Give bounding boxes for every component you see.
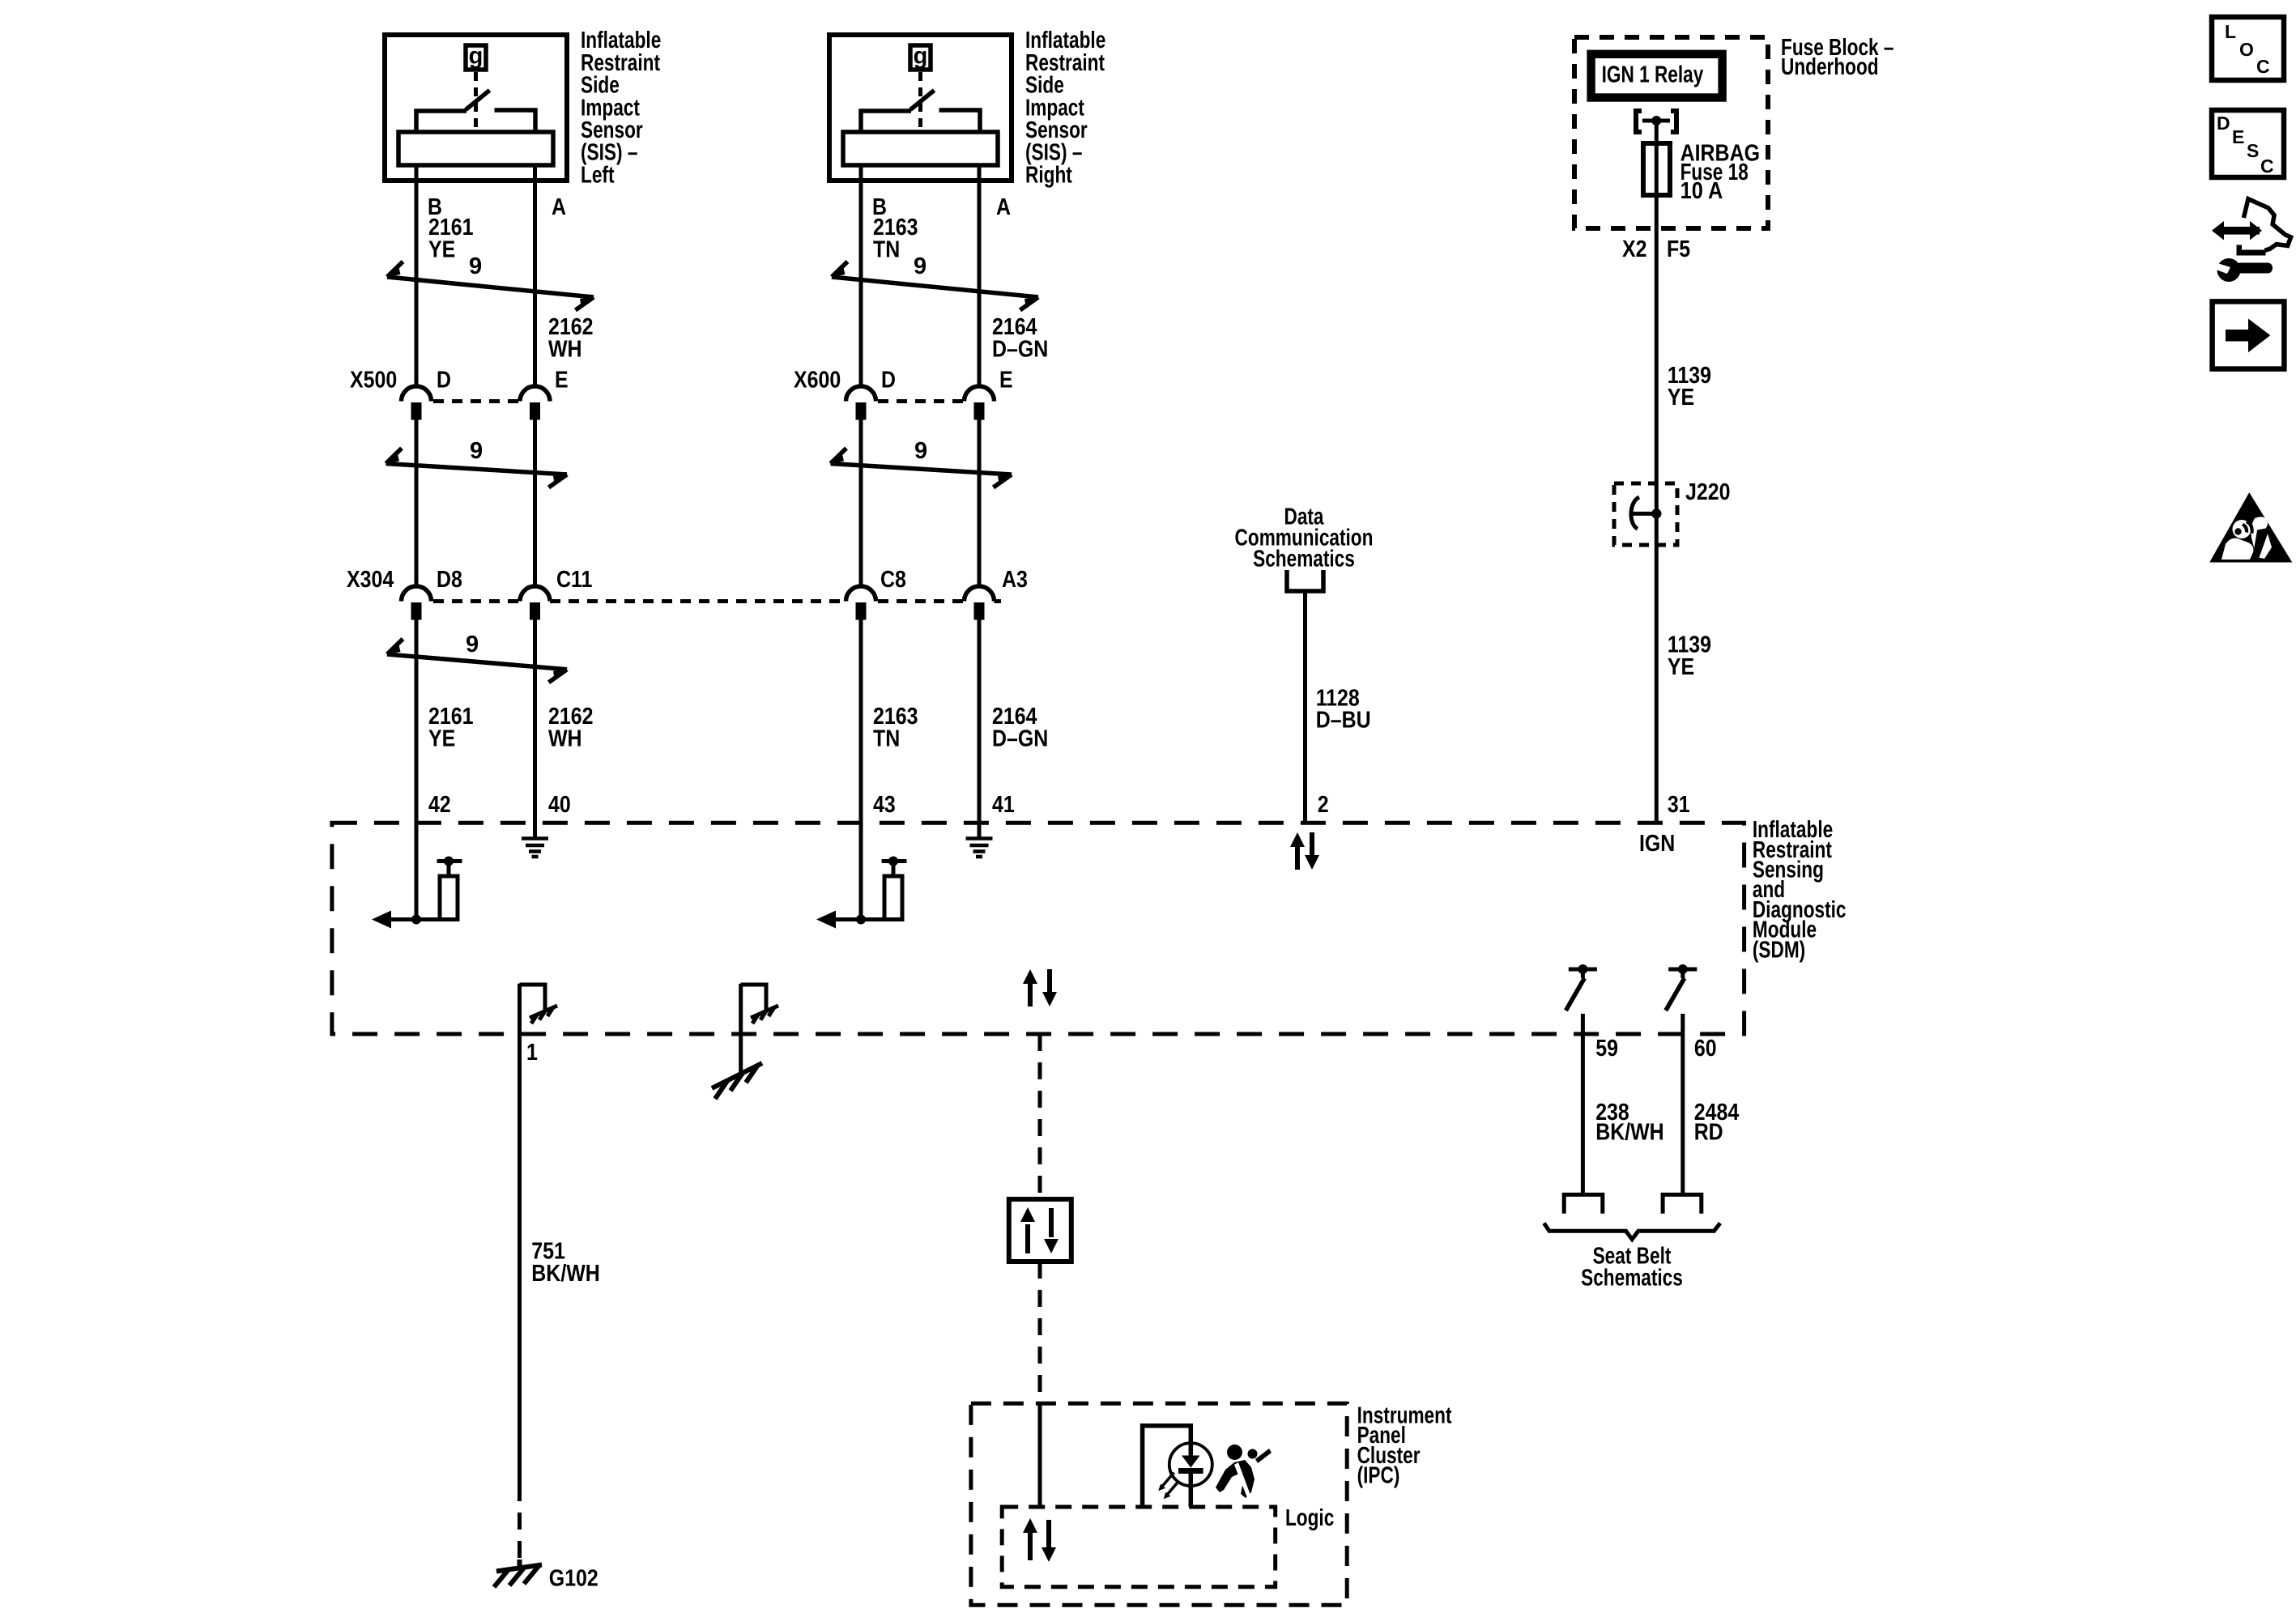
relay clip right: [1671, 111, 1676, 132]
svg-text:43: 43: [873, 792, 896, 818]
wire 751 dashed segment: [518, 1484, 522, 1560]
LED light arrow 1: [1158, 1473, 1174, 1491]
svg-text:9: 9: [466, 632, 479, 657]
wire A stub inside box (right): [978, 165, 982, 183]
svg-text:L: L: [2225, 21, 2236, 42]
svg-text:S: S: [2247, 140, 2259, 161]
Logic dashed box: [1002, 1507, 1276, 1587]
serial data arrows (above IPC drop): [1023, 969, 1057, 1006]
wire 2161 segment 2: [415, 420, 419, 586]
internal ground 2: wire: [739, 984, 743, 1074]
ground symbol under pin 41: [966, 839, 993, 857]
relay clip left: [1636, 111, 1642, 132]
wire 2164 segment 2: [978, 420, 982, 586]
LED cathode lead to logic box: [1189, 1474, 1194, 1507]
wire 2162 segment 1: [533, 183, 537, 385]
svg-text:9: 9: [914, 253, 926, 279]
svg-text:X2: X2: [1622, 236, 1647, 262]
svg-text:D8: D8: [437, 567, 462, 593]
wire 2163 segment 3: [859, 620, 863, 920]
forward arrow: [2226, 319, 2270, 353]
wire pin 59 to terminal: [1581, 1034, 1585, 1193]
warning triangle pictogram: [2221, 517, 2272, 560]
seat belt switch 60: blade: [1666, 978, 1685, 1011]
svg-text:X500: X500: [350, 368, 397, 394]
svg-text:9: 9: [914, 438, 927, 464]
wire 2163 segment 2: [859, 420, 863, 586]
double arrow in hand: [2212, 221, 2262, 240]
sensor body rectangle (left sensor): [398, 132, 553, 165]
wire 1139 segment 2 (J220 to SDM): [1655, 545, 1659, 823]
svg-text:X600: X600: [794, 368, 841, 394]
seat belt schematics brace: [1544, 1223, 1721, 1240]
wire 2164 segment 1: [978, 183, 982, 385]
LED cathode bar: [1178, 1468, 1203, 1474]
LED diode triangle: [1182, 1456, 1200, 1468]
squib driver right: junction dot: [856, 915, 866, 925]
wire 2162 segment 2: [533, 420, 537, 586]
squib driver left: bottom lead: [381, 917, 449, 921]
splice J220 dashed box: [1614, 483, 1677, 545]
wrench icon: [2216, 258, 2273, 282]
squib driver right: resistor body: [884, 876, 902, 920]
wire pin 60 to terminal: [1680, 1034, 1685, 1193]
LED light arrow 2: [1164, 1482, 1178, 1500]
g box (left sensor): [466, 45, 486, 70]
switch right lead (left sensor): [495, 110, 536, 132]
svg-text:J220: J220: [1685, 479, 1731, 505]
serial data wire inside IPC: [1038, 1403, 1042, 1507]
svg-text:A: A: [552, 194, 566, 220]
serial data arrows (in box): [1020, 1207, 1059, 1253]
right SIS sensor box: [829, 35, 1012, 181]
seat belt switch 59: lower wire: [1581, 1014, 1585, 1034]
serial data arrows (in Logic box): [1023, 1518, 1056, 1562]
sensor body rectangle (right sensor): [843, 132, 998, 165]
svg-text:E: E: [2232, 126, 2244, 147]
switch blade (left sensor): [466, 91, 490, 110]
harness slash 1 (left pair): [387, 262, 594, 310]
svg-text:1: 1: [526, 1040, 538, 1066]
wire 2161 segment 1: [415, 183, 419, 385]
switch left lead (left sensor): [416, 111, 466, 132]
relay contact dot: [1651, 116, 1661, 126]
seat belt switch 59: stub: [1581, 969, 1585, 978]
wire through J220: [1655, 483, 1659, 545]
svg-text:E: E: [999, 368, 1013, 394]
IGN 1 Relay box: [1591, 54, 1723, 98]
warning triangle: [2209, 492, 2292, 562]
forward arrow icon box: [2213, 301, 2285, 368]
svg-text:9: 9: [469, 253, 482, 279]
svg-text:40: 40: [548, 792, 571, 818]
connector X600 dashed line: [878, 399, 965, 403]
svg-text:E: E: [555, 368, 569, 394]
DESC icon box: [2212, 110, 2284, 177]
squib driver left: tee stem: [447, 862, 451, 877]
svg-text:D: D: [881, 368, 896, 394]
terminal pin D (X600): [856, 402, 867, 420]
switch dashed line (right sensor): [918, 72, 922, 130]
switch left lead (right sensor): [861, 111, 911, 132]
chassis ground below SDM (second): [712, 1063, 762, 1099]
seat belt switch 59: blade: [1565, 978, 1584, 1011]
terminal symbol (wire 238): [1564, 1194, 1603, 1213]
seat belt switch 60: contact dot: [1678, 964, 1688, 974]
connector X500 dashed line: [433, 399, 520, 403]
squib driver right: tee stem: [892, 862, 896, 877]
connector arc D (X500): [402, 386, 432, 401]
g box (right sensor): [910, 45, 931, 70]
svg-text:D: D: [437, 368, 451, 394]
harness slash 2 (left pair): [386, 449, 568, 488]
wire inside fuse: [1655, 143, 1659, 195]
wire 2161 segment 3: [415, 620, 419, 920]
squib driver right: arrowhead: [816, 911, 836, 929]
seat belt switch 60: stub: [1680, 969, 1685, 978]
squib driver left: arrowhead: [372, 911, 391, 929]
wire 751 solid segment: [518, 1034, 522, 1484]
wire B stub inside box (right): [859, 165, 863, 183]
svg-text:41: 41: [992, 792, 1015, 818]
wire A stub inside box (left): [533, 165, 537, 183]
LOC icon box: [2212, 17, 2284, 80]
squib driver right: bottom lead: [825, 917, 893, 921]
svg-text:IGN 1 Relay: IGN 1 Relay: [1602, 62, 1704, 88]
splice lead (J220): [1633, 512, 1656, 516]
AIRBAG fuse 18 body: [1643, 143, 1670, 195]
internal ground 2: hook: [741, 985, 766, 1011]
svg-text:g: g: [469, 44, 483, 70]
terminal pin C8 (X304): [856, 602, 867, 620]
connector arc E (X600): [965, 386, 995, 401]
squib driver left: top tee: [437, 859, 462, 863]
connector arc C8 (X304): [846, 586, 876, 602]
LED anode lead inside circle: [1189, 1443, 1194, 1456]
wire 2164 segment 3: [978, 620, 982, 839]
internal ground 1: chassis glyph: [530, 1006, 557, 1023]
svg-text:A: A: [996, 194, 1011, 220]
wire 1128: [1303, 591, 1307, 823]
svg-text:Fuse Block –Underhood: Fuse Block –Underhood: [1781, 35, 1894, 80]
hand icon outline: [2243, 199, 2290, 251]
ground symbol under pin 40: [522, 839, 548, 857]
svg-text:31: 31: [1668, 792, 1690, 818]
serial data arrow box: [1009, 1199, 1071, 1262]
svg-text:D: D: [2217, 113, 2230, 134]
switch right lead (right sensor): [939, 110, 981, 132]
svg-text:g: g: [914, 44, 928, 70]
splice dot (J220): [1651, 509, 1661, 518]
airbag telltale hook wire: [1143, 1426, 1191, 1507]
svg-text:O: O: [2239, 39, 2254, 60]
internal ground 1: hook: [520, 985, 546, 1011]
fuse block underhood dashed box: [1574, 37, 1768, 228]
connector arc A3 (X304): [965, 586, 995, 602]
svg-text:A3: A3: [1002, 567, 1028, 593]
switch dashed line (left sensor): [474, 72, 478, 130]
terminal symbol (wire 2484): [1663, 1194, 1702, 1213]
harness slash 3 (left pair): [387, 639, 567, 683]
squib driver left: tee dot: [444, 857, 454, 866]
relay contact bar: [1642, 119, 1670, 123]
svg-text:IGN: IGN: [1639, 831, 1675, 857]
svg-text:C11: C11: [556, 567, 592, 593]
serial data dashed wire (arrow box to IPC): [1038, 1262, 1042, 1403]
terminal pin D (X500): [411, 402, 422, 420]
seat belt switch 59: contact dot: [1578, 964, 1587, 974]
connector arc C11 (X304): [520, 586, 550, 602]
svg-text:X304: X304: [347, 567, 394, 593]
connector X304 dashed line right part: [878, 599, 965, 603]
ground G102 symbol: [494, 1560, 542, 1587]
terminal pin A3 (X304): [974, 602, 985, 620]
terminal pin D8 (X304): [411, 602, 422, 620]
harness slash 1 (right pair): [832, 262, 1038, 310]
svg-text:Seat BeltSchematics: Seat BeltSchematics: [1581, 1244, 1683, 1291]
squib driver left: junction dot: [411, 915, 421, 925]
serial data dashed wire (SDM to arrow box): [1038, 1034, 1042, 1199]
squib driver left: resistor body: [440, 876, 458, 920]
terminal pin E (X500): [530, 402, 540, 420]
wire 1139 segment 1 (fuse to J220): [1655, 195, 1659, 483]
svg-text:C: C: [2260, 155, 2274, 177]
LOC letters: [2225, 21, 2270, 77]
wire B stub inside box (left): [415, 165, 419, 183]
svg-text:G102: G102: [549, 1566, 598, 1592]
DESC letters: [2217, 113, 2274, 177]
svg-text:60: 60: [1694, 1036, 1717, 1062]
wire 2163 segment 1: [859, 183, 863, 385]
harness slash 2 (right pair): [831, 449, 1012, 488]
splice symbol curve (J220): [1631, 497, 1639, 529]
wire 2162 segment 3: [533, 620, 537, 839]
internal ground 1: wire: [518, 984, 522, 1034]
seat belt switch 60: contact bar: [1668, 968, 1697, 972]
serial data arrows (below pin 2): [1290, 832, 1319, 870]
svg-text:9: 9: [470, 438, 483, 464]
svg-text:C: C: [2256, 56, 2270, 77]
terminal pin C11 (X304): [530, 602, 540, 620]
connector arc E (X500): [520, 386, 550, 401]
airbag warning pictogram: [1216, 1445, 1272, 1500]
wire relay to fuse: [1655, 121, 1659, 143]
seat belt switch 59: contact bar: [1569, 968, 1597, 972]
squib driver right: top tee: [882, 859, 907, 863]
off-page bracket (data comm): [1287, 570, 1323, 591]
IPC dashed box: [971, 1403, 1347, 1605]
left SIS sensor box: [385, 35, 567, 181]
terminal pin E (X600): [974, 402, 985, 420]
svg-text:Logic: Logic: [1285, 1505, 1334, 1531]
svg-text:2: 2: [1318, 792, 1329, 818]
seat belt switch 60: lower wire: [1680, 1014, 1685, 1034]
SDM dashed box: [332, 823, 1744, 1034]
connector arc D (X600): [846, 386, 876, 401]
switch blade (right sensor): [910, 91, 935, 110]
telltale LED circle: [1169, 1443, 1212, 1486]
svg-text:59: 59: [1595, 1036, 1618, 1062]
internal ground 2: chassis glyph: [751, 1006, 778, 1023]
svg-text:C8: C8: [880, 567, 906, 593]
connector X304 dashed line: [433, 599, 520, 603]
svg-text:42: 42: [428, 792, 451, 818]
squib driver right: tee dot: [888, 857, 898, 866]
svg-text:F5: F5: [1667, 236, 1690, 262]
connector arc D8 (X304): [402, 586, 432, 602]
